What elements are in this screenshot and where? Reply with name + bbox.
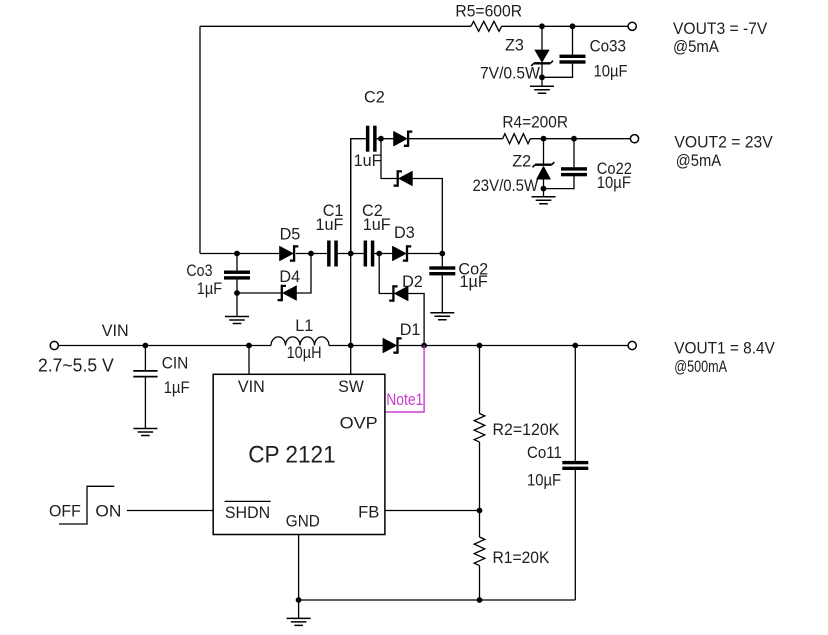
svg-text:VIN: VIN: [238, 378, 265, 396]
wire Co11 top stem: [574, 346, 576, 461]
zener Z2: [533, 162, 555, 179]
wire to ground stem: [543, 189, 545, 197]
ground under Z2: [532, 197, 556, 204]
svg-text:Z2: Z2: [512, 152, 531, 170]
wire left vertical from top rail to charge-pump rail: [199, 26, 201, 253]
wire SW pin stem: [350, 346, 352, 375]
svg-text:OFF: OFF: [49, 502, 81, 520]
wire GND pin stem: [298, 535, 300, 601]
resistor R2: [474, 414, 485, 443]
wire OVP note (magenta): [386, 346, 425, 413]
ground under Co3: [225, 317, 249, 324]
svg-text:VOUT3 = -7V: VOUT3 = -7V: [673, 20, 767, 38]
terminal VOUT1: [628, 341, 636, 349]
wire R2 bottom stem: [479, 442, 481, 511]
svg-text:23V/0.5W: 23V/0.5W: [473, 177, 539, 195]
terminal VOUT2: [630, 135, 638, 143]
wire VIN rail: [59, 345, 272, 347]
diode D2: [389, 285, 408, 301]
wire R2 top stem: [479, 346, 481, 414]
svg-text:10µF: 10µF: [527, 471, 561, 489]
capacitor CIN: [133, 371, 157, 377]
step waveform OFF/ON: [59, 486, 114, 524]
ground under Co2: [430, 313, 454, 320]
svg-text:CIN: CIN: [162, 354, 189, 372]
wire D3 to Co2: [408, 253, 442, 255]
svg-text:D1: D1: [400, 321, 421, 339]
node C2 top right plate junction: [378, 136, 384, 142]
svg-text:7V/0.5W: 7V/0.5W: [480, 65, 540, 83]
node FB divider junction: [477, 508, 483, 514]
node VIN pin junction: [246, 343, 252, 349]
svg-text:1µF: 1µF: [164, 379, 190, 397]
capacitor Co22: [561, 167, 587, 176]
capacitor C2 (top flying): [366, 126, 377, 152]
svg-text:1µF: 1µF: [460, 273, 488, 291]
diode D5: [280, 245, 299, 261]
node Z2/Co22 bottom junction: [541, 186, 547, 192]
op-amp U1 CP2121 body: [213, 374, 385, 534]
wire R1 top stem: [479, 511, 481, 538]
capacitor Co33: [560, 55, 586, 64]
diode D3: [393, 245, 412, 261]
wire Co33 top stem: [572, 26, 574, 54]
wire top rail right segment: [502, 25, 628, 27]
svg-text:Co3: Co3: [186, 262, 212, 280]
svg-text:1µF: 1µF: [197, 280, 222, 298]
node D1 cathode / OVP junction: [421, 343, 427, 349]
node Z3 top junction: [539, 23, 545, 29]
wire Co2 bottom stem: [441, 275, 443, 313]
wire Co3 bottom to D4 cathode: [237, 292, 282, 294]
node Z2 top junction: [541, 136, 547, 142]
svg-text:ON: ON: [95, 502, 121, 520]
resistor R1: [474, 537, 485, 566]
node D4 return junction: [308, 251, 314, 257]
svg-text:D2: D2: [402, 273, 423, 291]
svg-text:VIN: VIN: [102, 322, 129, 340]
svg-text:10µH: 10µH: [287, 344, 322, 362]
svg-text:D3: D3: [394, 224, 415, 242]
svg-text:GND: GND: [286, 512, 320, 530]
node SW junction: [348, 343, 354, 349]
wire C1 to C2: [338, 253, 364, 255]
capacitor Co2: [429, 266, 455, 275]
svg-text:@5mA: @5mA: [673, 38, 719, 56]
wire R4 to VOUT2 terminal: [530, 138, 630, 140]
terminal VOUT3: [628, 22, 636, 30]
node Z3/Co33 bottom junction: [539, 74, 545, 80]
node CIN junction: [143, 343, 149, 349]
node Co33 top junction: [570, 23, 576, 29]
zener Z3: [531, 50, 553, 66]
svg-text:Note1: Note1: [386, 391, 423, 409]
wire SHDN pin: [127, 510, 213, 512]
svg-text:OVP: OVP: [340, 414, 378, 432]
wire C2 top left plate to SW vertical: [351, 139, 366, 254]
wire Co3 bottom stem: [236, 279, 238, 293]
wire Co22 top stem: [573, 139, 575, 168]
svg-text:R1=20K: R1=20K: [493, 549, 550, 567]
svg-text:R4=200R: R4=200R: [502, 114, 568, 132]
wire Co22 bottom to Z2 anode: [544, 176, 575, 189]
svg-text:FB: FB: [358, 504, 379, 522]
wire Co11 bottom stem: [574, 470, 576, 601]
wire VIN pin stem: [248, 346, 250, 375]
wire FB pin to divider: [385, 510, 480, 512]
wire R1 bottom stem: [479, 566, 481, 601]
wire CIN bottom stem: [144, 377, 146, 429]
ground under CIN: [133, 429, 157, 436]
wire VOUT1 rail: [399, 345, 628, 347]
wire pump rail left (to D5): [200, 253, 280, 255]
capacitor C2 (mid flying): [364, 241, 375, 267]
node Co3 bottom junction: [234, 290, 240, 296]
wire to ground stem: [541, 77, 543, 86]
wire Z2 anode stem: [543, 179, 545, 189]
terminal VIN input: [50, 341, 58, 349]
node Co3 top junction: [234, 251, 240, 257]
capacitor C1: [327, 241, 338, 267]
diode D6 (to VOUT2): [394, 131, 413, 147]
wire L1 to D1: [329, 345, 383, 347]
ground under Z3: [530, 86, 554, 93]
node SW vertical crossing: [348, 251, 354, 257]
svg-text:R5=600R: R5=600R: [455, 2, 522, 20]
wire D4 anode up to pump rail: [296, 254, 311, 294]
svg-text:C2: C2: [364, 89, 385, 107]
wire D6 cathode to R4: [409, 138, 503, 140]
svg-text:D4: D4: [279, 268, 300, 286]
wire D7 anode to Co2 rail: [412, 179, 442, 254]
wire C2 right plate down to D7 cathode: [381, 139, 398, 179]
svg-text:SW: SW: [338, 378, 364, 396]
node Co2 top junction: [439, 251, 445, 257]
wire Co3 top stem: [236, 254, 238, 271]
wire to system ground: [298, 600, 300, 618]
svg-text:1uF: 1uF: [316, 216, 344, 234]
wire Z3 anode stem: [541, 63, 543, 77]
svg-text:Co33: Co33: [590, 37, 626, 55]
inductor L1: [271, 337, 329, 346]
node R1 bottom junction: [477, 597, 483, 603]
node GND junction: [296, 597, 302, 603]
wire Z2 cathode stem: [543, 139, 545, 165]
svg-text:10µF: 10µF: [594, 62, 628, 80]
wire D2 anode down to VOUT1 rail: [408, 294, 424, 346]
wire Z3 cathode stem: [541, 26, 543, 50]
svg-text:1uF: 1uF: [354, 152, 382, 170]
svg-text:10µF: 10µF: [597, 174, 631, 192]
resistor R4: [503, 134, 531, 144]
svg-text:R2=120K: R2=120K: [493, 421, 560, 439]
svg-text:2.7~5.5 V: 2.7~5.5 V: [38, 354, 114, 375]
diode D1: [383, 337, 402, 353]
wire Co3 to ground: [236, 293, 238, 317]
resistor R5: [471, 21, 502, 31]
wire C2 to D6: [377, 138, 394, 140]
wire Co33 bottom stem to Z3 anode: [542, 63, 573, 77]
node Co11 top junction: [572, 343, 578, 349]
wire top rail left segment: [200, 25, 471, 27]
wire Co2 top stem: [441, 254, 443, 267]
node C2 right plate junction: [376, 251, 382, 257]
diode D7 (pump return): [394, 170, 413, 186]
wire D5 to C1: [296, 253, 327, 255]
svg-text:@500mA: @500mA: [674, 358, 727, 376]
SHDN overline: [225, 500, 271, 502]
svg-text:@5mA: @5mA: [676, 152, 721, 170]
svg-text:Co11: Co11: [527, 444, 562, 462]
svg-text:SHDN: SHDN: [225, 504, 270, 522]
wire C2 to D3: [374, 253, 393, 255]
svg-text:D5: D5: [280, 226, 301, 244]
svg-text:CP 2121: CP 2121: [248, 441, 336, 468]
node Co22 top junction: [571, 136, 577, 142]
node R2 top junction: [477, 343, 483, 349]
wire C2 right plate down to D2 cathode: [379, 254, 393, 294]
capacitor Co3: [224, 271, 250, 280]
svg-text:Z3: Z3: [505, 36, 524, 54]
wire SW vertical (C2 top to SW node): [350, 139, 352, 346]
svg-text:VOUT1 = 8.4V: VOUT1 = 8.4V: [674, 339, 775, 357]
svg-text:VOUT2 = 23V: VOUT2 = 23V: [674, 133, 773, 151]
svg-text:1uF: 1uF: [363, 216, 391, 234]
svg-text:L1: L1: [295, 317, 313, 335]
wire CIN top stem: [144, 346, 146, 371]
wire bottom rail: [299, 599, 576, 601]
ground main: [287, 618, 311, 625]
capacitor Co11: [562, 461, 588, 470]
diode D4: [278, 285, 297, 301]
